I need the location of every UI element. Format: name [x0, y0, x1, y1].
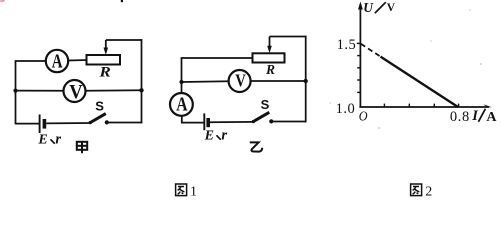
wire: slider to top-right corner (circuit 2) — [270, 36, 307, 38]
wire: right vertical of circuit 1 — [141, 39, 143, 123]
switch S1 blade — [90, 114, 106, 123]
wire: switch S2 to right corner — [271, 121, 306, 123]
U-I line dashed segment — [361, 44, 381, 57]
svg-text:S: S — [95, 99, 104, 114]
wire: voltmeter branch right segment (circuit 2) — [251, 80, 306, 82]
label 甲 (drawn glyph) — [77, 142, 87, 153]
svg-text:V: V — [235, 71, 246, 91]
wire: ammeter to rheostat R1 — [68, 59, 87, 62]
wire: slider to top-right corner — [106, 39, 143, 41]
svg-text:U: U — [363, 0, 374, 15]
wire: battery to switch S2 — [210, 121, 253, 123]
label E、r of battery (circuit 1) — [37, 131, 61, 147]
svg-text:O: O — [359, 109, 368, 124]
scan speckles — [469, 9, 471, 11]
svg-text:1.5: 1.5 — [337, 37, 357, 53]
wire: right vertical of circuit 2 — [305, 36, 307, 123]
node: junction dot on left wire (circuit 2) — [179, 80, 183, 84]
svg-text:2: 2 — [425, 185, 432, 198]
svg-text:V: V — [69, 81, 83, 103]
svg-text:1: 1 — [190, 185, 197, 198]
ammeter A2 — [170, 93, 193, 116]
svg-text:1.0: 1.0 — [336, 101, 356, 117]
label U/V — [363, 0, 396, 15]
svg-text:R: R — [265, 62, 275, 77]
battery E,r (circuit 2) long plate — [203, 113, 205, 130]
node: junction dot right, voltmeter branch — [139, 88, 143, 92]
svg-text:R: R — [98, 64, 111, 80]
node: junction dot left, voltmeter branch — [13, 89, 17, 93]
svg-text:r: r — [55, 131, 61, 147]
battery E,r (circuit 1) short thick plate — [43, 119, 47, 129]
voltmeter V1 — [64, 80, 86, 102]
wire: bottom branch left segment — [15, 123, 39, 125]
wire: voltmeter branch left segment (circuit 2) — [182, 80, 230, 83]
rheostat R1 body — [87, 55, 121, 65]
scan artifact red-purple mark top-left — [0, 0, 5, 2]
wire: top branch left segment to ammeter — [15, 60, 46, 62]
wire: left vertical of circuit 2 — [181, 58, 183, 93]
svg-text:A: A — [52, 51, 63, 73]
switch S1 contact dot — [105, 120, 109, 124]
rheostat R2 slider arrow — [269, 37, 271, 49]
switch S2 blade — [253, 112, 270, 122]
wire: voltmeter branch right segment — [86, 89, 142, 92]
svg-text:S: S — [261, 97, 270, 112]
wire: voltmeter branch left segment — [16, 90, 65, 92]
x-axis I/A — [359, 106, 489, 108]
svg-text:r: r — [221, 127, 227, 143]
scan artifact tick top edge — [121, 0, 123, 2]
battery E,r (circuit 2) short thick plate — [206, 118, 210, 127]
U-I line solid segment — [381, 57, 459, 107]
label E、r of battery (circuit 2) — [204, 127, 228, 143]
svg-text:E: E — [37, 132, 47, 147]
y-axis U/V — [359, 4, 361, 108]
wire: left vertical of circuit 1 — [15, 61, 17, 124]
voltmeter V2 — [229, 70, 251, 92]
rheostat R1 slider arrow — [105, 40, 107, 50]
label I/A — [471, 108, 497, 125]
switch S2 contact dot — [269, 119, 273, 123]
wire: battery to switch S1 — [46, 122, 90, 124]
label 图2 (drawn glyph + digit) — [411, 184, 433, 200]
wire: ammeter A2 to bottom branch — [182, 116, 204, 123]
node: junction dot right (circuit 2) — [304, 79, 308, 83]
y-axis tick 1.5 — [357, 42, 361, 44]
battery E,r (circuit 1) long plate — [39, 115, 41, 134]
wire: top branch to rheostat R2 — [181, 57, 253, 59]
svg-text:A: A — [176, 94, 188, 116]
svg-text:A: A — [486, 110, 497, 125]
svg-text:V: V — [387, 2, 396, 14]
y-axis minor ticks — [357, 55, 360, 57]
ammeter A1 — [46, 50, 68, 72]
wire: switch to right corner — [107, 122, 143, 124]
svg-text:E: E — [204, 128, 214, 143]
x-axis ticks — [383, 104, 385, 107]
svg-text:0.8: 0.8 — [450, 109, 470, 125]
rheostat R2 body — [253, 53, 285, 62]
label 图1 (drawn glyph + digit) — [176, 184, 197, 200]
label 乙 (drawn glyph) — [250, 142, 262, 151]
